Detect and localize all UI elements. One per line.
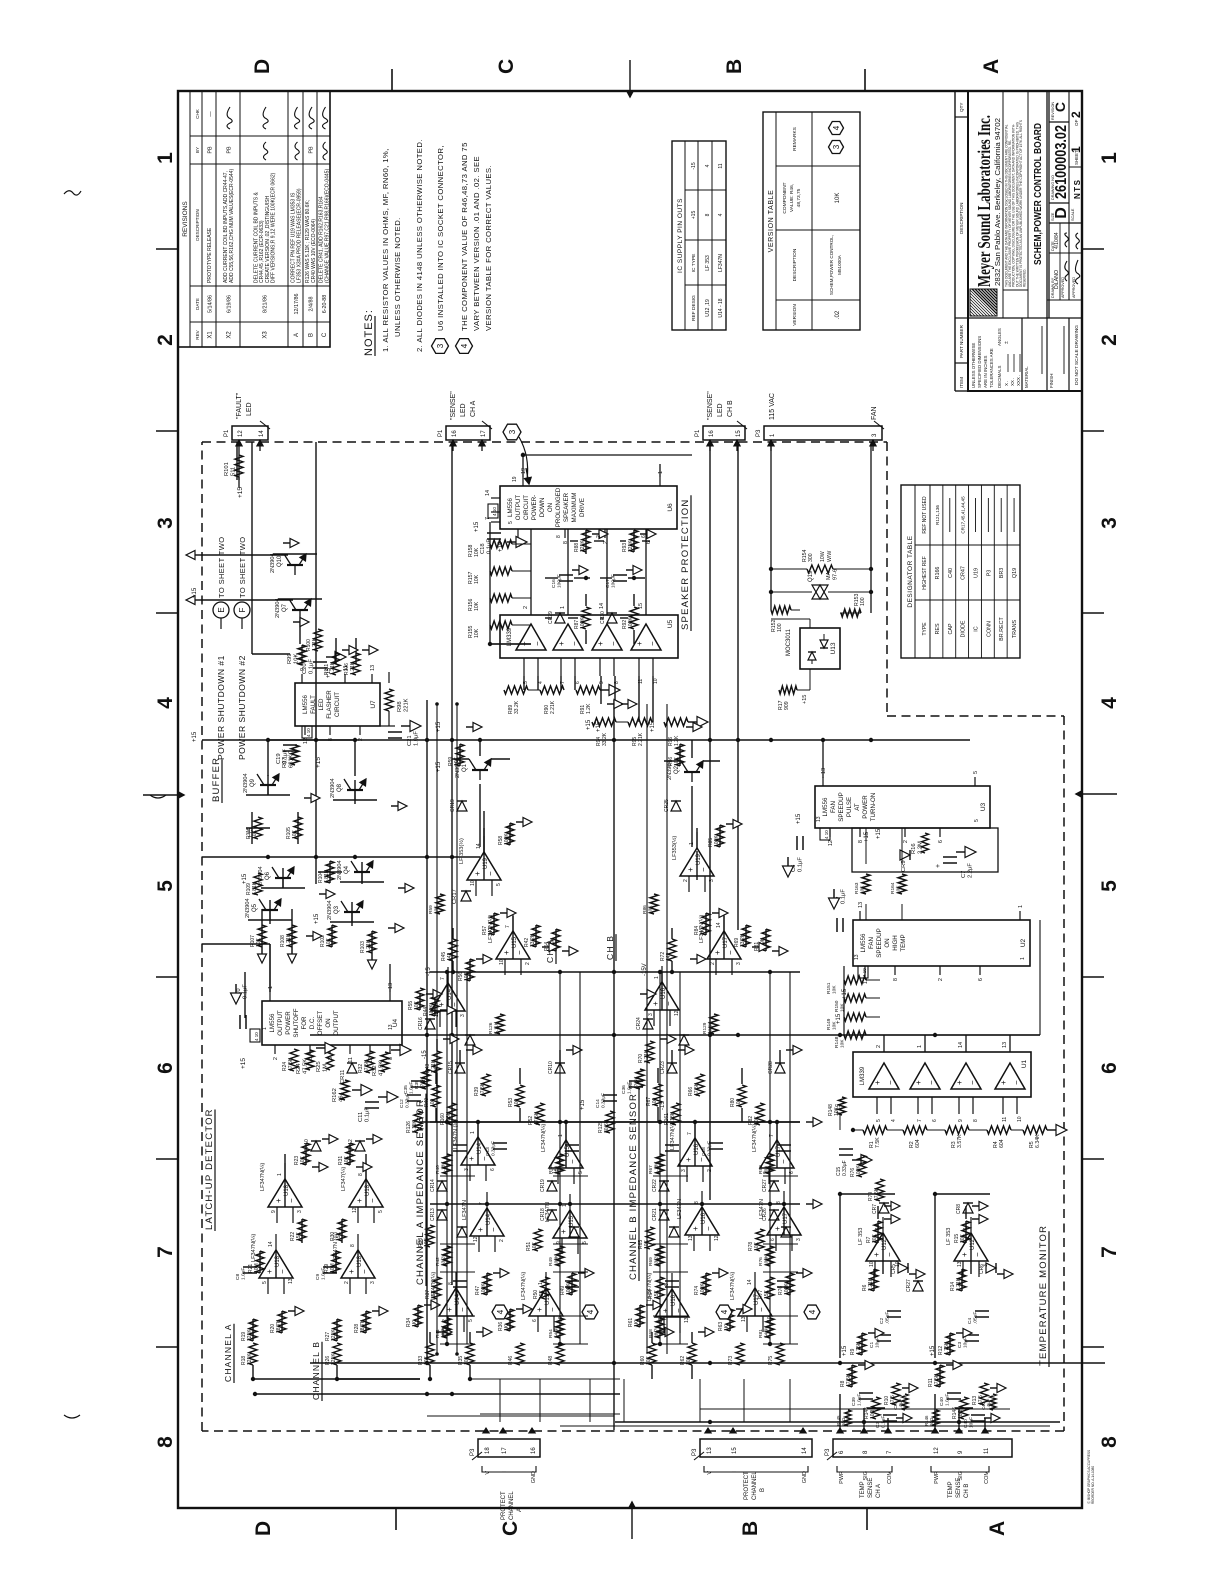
svg-text:CHANNEL B: CHANNEL B — [311, 1341, 321, 1400]
svg-text:2.2M: 2.2M — [918, 841, 924, 854]
svg-text:12: 12 — [934, 1447, 940, 1454]
svg-text:C17: C17 — [605, 579, 611, 588]
svg-text:2: 2 — [154, 334, 177, 346]
svg-text:OUTPUT: OUTPUT — [515, 495, 522, 521]
svg-text:U6: U6 — [667, 503, 674, 512]
svg-text:UNLESS OTHERWISE NOTED.: UNLESS OTHERWISE NOTED. — [393, 217, 402, 337]
svg-text:CR27: CR27 — [906, 1279, 912, 1292]
svg-text:R80: R80 — [758, 1165, 764, 1174]
svg-text:2/4/88: 2/4/88 — [309, 297, 315, 312]
svg-text:C12: C12 — [399, 1099, 405, 1108]
svg-text:97-6: 97-6 — [832, 569, 838, 580]
svg-text:8: 8 — [705, 213, 711, 216]
svg-text:C2: C2 — [879, 1318, 885, 1324]
svg-text:13: 13 — [388, 1024, 394, 1030]
svg-text:C: C — [499, 1521, 522, 1536]
svg-text:DOWN: DOWN — [539, 498, 546, 518]
svg-text:+: + — [914, 1080, 923, 1085]
svg-text:LM556: LM556 — [860, 933, 867, 952]
svg-text:1.21K: 1.21K — [366, 939, 372, 953]
svg-text:FINISH: FINISH — [1049, 374, 1054, 388]
svg-text:+: + — [873, 1080, 882, 1085]
svg-text:R126: R126 — [488, 1022, 494, 1034]
svg-text:+15: +15 — [842, 1345, 848, 1356]
svg-text:4.75K: 4.75K — [944, 1341, 950, 1355]
svg-text:2: 2 — [1098, 334, 1121, 346]
svg-text:VARY BETWEEN VERSION .01 AND .: VARY BETWEEN VERSION .01 AND .02. SEE — [472, 156, 481, 331]
svg-text:2N3904: 2N3904 — [327, 900, 333, 920]
svg-text:LF347N(¼): LF347N(¼) — [251, 1234, 257, 1262]
svg-text:PWR: PWR — [934, 1471, 940, 1484]
svg-text:SPECIFIED DIMENSIONS: SPECIFIED DIMENSIONS — [977, 336, 982, 388]
svg-text:12: 12 — [828, 840, 834, 846]
svg-text:1.0μF: 1.0μF — [321, 1268, 327, 1280]
svg-text:CHANNEL: CHANNEL — [509, 1491, 515, 1520]
svg-text:D: D — [1053, 207, 1070, 219]
svg-text:CH B: CH B — [727, 400, 734, 417]
svg-text:13: 13 — [1002, 1042, 1008, 1048]
svg-text:3: 3 — [736, 962, 742, 965]
svg-text:±: ± — [1004, 341, 1010, 344]
svg-text:+: + — [872, 1252, 881, 1257]
svg-text:PROTECT: PROTECT — [744, 1471, 750, 1500]
svg-text:-15: -15 — [422, 1050, 428, 1059]
svg-text:13: 13 — [370, 665, 376, 671]
svg-text:7: 7 — [440, 977, 446, 980]
svg-text:15K: 15K — [539, 1289, 545, 1299]
svg-text:LF 353: LF 353 — [946, 1228, 952, 1245]
svg-text:2N3904: 2N3904 — [243, 773, 249, 793]
svg-text:15: 15 — [736, 430, 742, 437]
svg-text:+15: +15 — [876, 828, 882, 839]
svg-text:LM556: LM556 — [507, 497, 514, 516]
svg-text:4: 4 — [718, 213, 724, 216]
svg-text:−: − — [486, 871, 495, 876]
svg-text:5: 5 — [468, 1319, 474, 1322]
svg-text:CH B: CH B — [964, 1484, 970, 1498]
svg-text:33.2K: 33.2K — [654, 1253, 660, 1266]
svg-text:0.33μF: 0.33μF — [491, 1141, 497, 1156]
svg-text:+15: +15 — [314, 913, 320, 924]
svg-text:CR7: CR7 — [872, 1204, 878, 1214]
svg-text:47.5K: 47.5K — [420, 1076, 426, 1089]
svg-text:4: 4 — [538, 681, 544, 684]
svg-text:4: 4 — [720, 1309, 729, 1314]
svg-text:15K: 15K — [764, 1289, 770, 1299]
svg-text:Q7: Q7 — [282, 603, 288, 612]
svg-text:B: B — [723, 59, 746, 74]
svg-text:13: 13 — [816, 816, 822, 822]
svg-text:4 10: 4 10 — [306, 728, 311, 737]
svg-text:+: + — [691, 1226, 700, 1231]
svg-text:X2: X2 — [227, 331, 233, 339]
svg-text:LF347N(¼): LF347N(¼) — [521, 1272, 527, 1300]
svg-text:0.33μF: 0.33μF — [601, 1093, 607, 1108]
svg-text:P3: P3 — [692, 1448, 698, 1456]
svg-text:−: − — [968, 1080, 977, 1085]
svg-text:6: 6 — [1098, 1062, 1121, 1074]
svg-text:3: 3 — [370, 1281, 376, 1284]
svg-text:+15: +15 — [580, 1099, 586, 1110]
svg-text:10: 10 — [1017, 1116, 1023, 1122]
svg-text:MATERIAL: MATERIAL — [1024, 366, 1029, 388]
svg-text:DESCRIPTION: DESCRIPTION — [195, 209, 200, 240]
svg-text:100: 100 — [764, 1166, 770, 1174]
svg-text:13: 13 — [957, 1261, 963, 1267]
svg-text:13: 13 — [388, 983, 394, 989]
svg-text:R97: R97 — [282, 757, 288, 768]
svg-text:1.18K: 1.18K — [654, 1161, 660, 1174]
svg-text:5: 5 — [378, 1210, 384, 1213]
svg-text:4: 4 — [586, 1309, 595, 1314]
svg-text:R121,136: R121,136 — [935, 505, 940, 525]
svg-text:1: 1 — [917, 1045, 923, 1048]
svg-text:X .: X . — [1004, 381, 1009, 386]
svg-text:100K: 100K — [504, 833, 510, 845]
svg-text:1.21K: 1.21K — [286, 933, 292, 947]
svg-text:-15: -15 — [426, 967, 432, 976]
svg-text:5: 5 — [973, 771, 979, 774]
svg-text:POWER SHUTDOWN #1: POWER SHUTDOWN #1 — [216, 655, 226, 760]
svg-text:R164: R164 — [890, 882, 896, 894]
svg-text:1K: 1K — [412, 1320, 418, 1327]
svg-text:5.11K: 5.11K — [494, 1021, 500, 1034]
svg-text:+: + — [651, 1001, 660, 1006]
svg-text:POWER SHUTDOWN #2: POWER SHUTDOWN #2 — [237, 655, 247, 760]
svg-text:RES: RES — [935, 623, 941, 634]
svg-text:12: 12 — [714, 1235, 720, 1241]
svg-text:2: 2 — [523, 606, 529, 609]
svg-text:THE COMPONENT VALUE OF R46,48,: THE COMPONENT VALUE OF R46,48,73 AND 75 — [460, 142, 469, 331]
svg-text:R162: R162 — [332, 1088, 338, 1102]
svg-text:47.5K: 47.5K — [846, 1373, 852, 1387]
svg-text:POWER: POWER — [285, 1011, 292, 1035]
svg-text:CR15: CR15 — [448, 1061, 454, 1074]
svg-text:5: 5 — [578, 1171, 584, 1174]
svg-text:−: − — [704, 1226, 713, 1231]
svg-text:P3: P3 — [470, 1448, 476, 1456]
svg-text:REMARKS: REMARKS — [792, 127, 798, 151]
svg-text:1K: 1K — [504, 1324, 510, 1331]
svg-text:TO SHEET TWO: TO SHEET TWO — [217, 537, 226, 598]
svg-text:3: 3 — [297, 1210, 303, 1213]
svg-text:P1: P1 — [224, 429, 230, 437]
svg-text:C20: C20 — [302, 663, 308, 674]
svg-text:CR13: CR13 — [430, 1208, 436, 1221]
svg-text:221K: 221K — [247, 1329, 253, 1341]
svg-text:P3: P3 — [756, 429, 762, 437]
svg-text:TRANS: TRANS — [1012, 619, 1018, 638]
svg-text:CAP: CAP — [948, 623, 954, 634]
svg-text:18: 18 — [485, 1447, 491, 1454]
svg-text:SCALE: SCALE — [1071, 208, 1075, 221]
svg-text:U14 - 18: U14 - 18 — [718, 298, 724, 317]
svg-text:2: 2 — [1069, 111, 1083, 118]
svg-text:DiLANO: DiLANO — [1054, 270, 1060, 289]
svg-text:CR19: CR19 — [540, 1179, 546, 1192]
svg-text:1: 1 — [1020, 957, 1026, 960]
svg-text:1: 1 — [538, 1282, 544, 1285]
svg-text:+15: +15 — [192, 731, 198, 742]
svg-text:+: + — [467, 1156, 476, 1161]
svg-text:2832 San Pablo Ave. Berkeley,: 2832 San Pablo Ave. Berkeley, California… — [993, 118, 1002, 286]
svg-text:3: 3 — [709, 879, 715, 882]
svg-text:16: 16 — [531, 1447, 537, 1454]
svg-text:100: 100 — [860, 597, 866, 606]
svg-text:+15: +15 — [650, 721, 656, 732]
svg-text:−: − — [779, 1159, 788, 1164]
svg-text:2.21K: 2.21K — [550, 700, 556, 714]
svg-text:48,73,75: 48,73,75 — [796, 188, 802, 207]
svg-text:2. ALL DIODES IN 4148 UNLESS: 2. ALL DIODES IN 4148 UNLESS OTHERWISE N… — [415, 139, 424, 352]
svg-text:+: + — [502, 950, 511, 955]
svg-text:10K: 10K — [896, 885, 902, 894]
svg-text:LF347(¼): LF347(¼) — [341, 1167, 347, 1191]
svg-text:100: 100 — [652, 1097, 658, 1106]
svg-text:16: 16 — [709, 430, 715, 437]
svg-text:C: C — [1052, 102, 1068, 112]
svg-text:3: 3 — [436, 343, 445, 348]
svg-text:4: 4 — [460, 343, 469, 348]
svg-text:33.2K: 33.2K — [740, 933, 746, 947]
svg-text:U7: U7 — [370, 700, 377, 709]
svg-text:1: 1 — [262, 1027, 268, 1030]
svg-text:0.1μF: 0.1μF — [841, 889, 847, 904]
svg-text:−: − — [697, 1157, 706, 1162]
svg-text:14: 14 — [268, 1241, 274, 1247]
svg-text:IC: IC — [974, 626, 980, 631]
svg-text:CR22: CR22 — [652, 1179, 658, 1192]
svg-text:LM556: LM556 — [822, 797, 829, 816]
svg-text:11: 11 — [1002, 1117, 1008, 1122]
svg-text:100: 100 — [554, 1166, 560, 1174]
svg-text:REF DESIG: REF DESIG — [691, 295, 697, 321]
svg-text:GND: GND — [531, 1471, 537, 1483]
svg-text:17: 17 — [481, 430, 487, 437]
svg-text:8: 8 — [556, 535, 562, 538]
svg-text:+: + — [473, 871, 482, 876]
svg-text:8: 8 — [973, 1119, 979, 1122]
svg-text:SCHEM,POWER CONTROL,: SCHEM,POWER CONTROL, — [829, 235, 834, 295]
svg-text:A: A — [294, 333, 300, 337]
svg-text:Q6: Q6 — [265, 871, 271, 880]
svg-text:ON: ON — [547, 503, 554, 512]
svg-text:10K: 10K — [474, 628, 480, 638]
svg-text:464: 464 — [339, 1092, 345, 1102]
svg-text:4: 4 — [154, 697, 177, 709]
svg-text:221K: 221K — [247, 1353, 253, 1365]
svg-text:2N3904: 2N3904 — [275, 598, 281, 618]
svg-text:+15: +15 — [836, 1103, 842, 1114]
svg-text:D: D — [252, 1521, 275, 1536]
svg-text:BR3: BR3 — [999, 568, 1005, 579]
svg-text:C13: C13 — [485, 1147, 491, 1156]
svg-text:6: 6 — [839, 1450, 845, 1454]
svg-text:−: − — [548, 1307, 557, 1312]
svg-text:+: + — [274, 1198, 283, 1203]
svg-text:6: 6 — [490, 1168, 496, 1171]
svg-text:1K: 1K — [634, 1320, 640, 1327]
svg-text:8: 8 — [358, 1173, 364, 1176]
svg-text:1: 1 — [689, 842, 695, 845]
svg-text:.05μF: .05μF — [885, 1312, 891, 1324]
svg-text:DATE: DATE — [195, 298, 200, 310]
svg-text:ADD C55,56,R162,CHG NUM VALUES: ADD C55,56,R162,CHG NUM VALUES(ECR-0544) — [229, 169, 235, 283]
svg-text:MOC3011: MOC3011 — [786, 628, 792, 656]
svg-text:IC TYPE: IC TYPE — [691, 254, 697, 273]
svg-text:−: − — [570, 641, 579, 646]
svg-text:1K: 1K — [700, 928, 706, 935]
svg-text:1.0μF: 1.0μF — [857, 1394, 863, 1406]
svg-text:C4: C4 — [967, 1318, 973, 1324]
svg-text:D.C.: D.C. — [309, 1017, 316, 1030]
svg-text:Q5: Q5 — [252, 903, 258, 912]
svg-text:B: B — [739, 1521, 762, 1536]
svg-text:CR10: CR10 — [548, 1061, 554, 1074]
svg-text:+: + — [535, 1307, 544, 1312]
svg-text:R166: R166 — [935, 567, 941, 580]
svg-text:R149: R149 — [826, 1018, 832, 1030]
svg-text:P3: P3 — [986, 570, 992, 577]
svg-text:VERSION TABLE FOR CORRECT VALU: VERSION TABLE FOR CORRECT VALUES. — [484, 165, 493, 331]
svg-text:10K: 10K — [326, 937, 332, 947]
svg-text:1.0μF: 1.0μF — [986, 1398, 991, 1410]
svg-text:12: 12 — [303, 738, 309, 744]
svg-text:100K: 100K — [554, 1254, 560, 1266]
svg-text:2N3904: 2N3904 — [270, 553, 276, 573]
svg-text:−: − — [368, 1198, 377, 1203]
svg-text:−: − — [885, 1252, 894, 1257]
svg-text:R151: R151 — [826, 982, 832, 994]
svg-text:12: 12 — [473, 1236, 479, 1242]
svg-text:16: 16 — [452, 430, 458, 437]
svg-text:17: 17 — [502, 1447, 508, 1454]
svg-text:3: 3 — [648, 1013, 654, 1016]
svg-text:SPEAKER PROTECTION: SPEAKER PROTECTION — [680, 499, 691, 630]
svg-text:10K: 10K — [474, 601, 480, 611]
svg-text:LF347N(¼): LF347N(¼) — [541, 1124, 547, 1152]
svg-text:100K: 100K — [714, 835, 720, 847]
svg-text:2N3904: 2N3904 — [245, 898, 251, 918]
svg-text:CR47: CR47 — [961, 566, 967, 580]
svg-text:6.81K: 6.81K — [252, 881, 258, 895]
svg-text:47.5K: 47.5K — [288, 1057, 294, 1071]
svg-text:IC SUPPLY PIN OUTS: IC SUPPLY PIN OUTS — [677, 198, 684, 273]
svg-text:R129: R129 — [702, 1022, 708, 1034]
svg-text:+15: +15 — [248, 827, 254, 838]
svg-text:2.21K: 2.21K — [868, 1277, 874, 1291]
svg-text:100μF: 100μF — [611, 574, 617, 588]
svg-text:13: 13 — [707, 1447, 713, 1454]
svg-text:CR16: CR16 — [418, 1017, 424, 1030]
svg-text:+: + — [355, 1198, 364, 1203]
svg-text:−: − — [648, 641, 657, 646]
svg-text:10K: 10K — [414, 1000, 420, 1010]
svg-text:7: 7 — [687, 1132, 693, 1135]
svg-text:1.0μF: 1.0μF — [898, 1398, 903, 1410]
svg-text:33.2K: 33.2K — [530, 933, 536, 947]
svg-text:−: − — [973, 1252, 982, 1257]
svg-text:A: A — [980, 59, 1003, 74]
svg-text:3: 3 — [796, 1238, 802, 1241]
svg-text:CONN: CONN — [986, 621, 992, 637]
svg-text:LF 353: LF 353 — [705, 255, 711, 271]
svg-text:6: 6 — [978, 978, 984, 981]
svg-text:TEMP: TEMP — [860, 1481, 866, 1498]
svg-text:6: 6 — [532, 1319, 538, 1322]
svg-text:Q9: Q9 — [250, 778, 256, 787]
svg-text:+15: +15 — [242, 873, 248, 884]
svg-text:10K: 10K — [840, 1039, 846, 1048]
svg-text:100K: 100K — [764, 1254, 770, 1266]
svg-text:14: 14 — [875, 1224, 881, 1230]
svg-text:3.57K: 3.57K — [957, 1134, 963, 1148]
svg-text:9: 9 — [958, 1450, 964, 1454]
svg-text:−: − — [287, 1198, 296, 1203]
svg-text:100: 100 — [430, 1098, 436, 1107]
svg-text:TOLERANCES ARE: TOLERANCES ARE — [989, 348, 994, 388]
svg-text:+: + — [635, 641, 644, 646]
svg-text:C39: C39 — [851, 1397, 857, 1406]
svg-text:9: 9 — [271, 1210, 277, 1213]
svg-text:100μF: 100μF — [557, 574, 563, 588]
svg-text:1: 1 — [268, 986, 274, 989]
svg-text:6: 6 — [932, 1119, 938, 1122]
svg-text:33.2K: 33.2K — [441, 1253, 447, 1266]
svg-text:0.33μF: 0.33μF — [842, 1160, 848, 1176]
svg-text:CIRCUIT: CIRCUIT — [523, 495, 530, 520]
svg-text:221K: 221K — [628, 540, 634, 552]
svg-text:8: 8 — [448, 1282, 454, 1285]
svg-text:1.18K: 1.18K — [441, 1161, 447, 1174]
svg-text:9: 9 — [599, 681, 605, 684]
svg-text:0.1μF: 0.1μF — [309, 659, 315, 674]
svg-text:8: 8 — [863, 1450, 869, 1454]
svg-text:APPROVED: APPROVED — [1061, 277, 1065, 298]
svg-text:1K: 1K — [488, 928, 494, 935]
svg-text:R24: R24 — [296, 1063, 302, 1074]
svg-text:R39: R39 — [414, 1080, 420, 1089]
svg-text:5: 5 — [496, 883, 502, 886]
svg-text:2: 2 — [525, 962, 531, 965]
svg-text:CR19: CR19 — [450, 799, 456, 812]
svg-text:Q19: Q19 — [1012, 568, 1018, 578]
svg-text:SENSE: SENSE — [868, 1478, 874, 1498]
svg-text:CH A: CH A — [876, 1484, 882, 1498]
svg-text:−: − — [360, 1269, 369, 1274]
svg-text:2.21K: 2.21K — [956, 1277, 962, 1291]
svg-text:Q1: Q1 — [462, 763, 468, 772]
svg-text:10: 10 — [895, 1261, 901, 1267]
svg-text:CIRCUIT: CIRCUIT — [334, 692, 341, 717]
svg-text:26100003.02: 26100003.02 — [1053, 125, 1070, 199]
svg-text:1. ALL RESISTOR VALUES IN OHM: 1. ALL RESISTOR VALUES IN OHMS, MF, RN60… — [381, 148, 390, 352]
svg-text:B: B — [760, 1488, 766, 1492]
svg-text:C36: C36 — [621, 1085, 627, 1094]
svg-text:+15: +15 — [691, 211, 697, 220]
svg-text:E: E — [217, 607, 226, 612]
svg-text:11: 11 — [718, 163, 724, 168]
svg-text:C7: C7 — [961, 871, 967, 878]
svg-text:−: − — [674, 1308, 683, 1313]
svg-text:C: C — [322, 332, 328, 337]
svg-text:TYPE: TYPE — [922, 622, 928, 636]
svg-text:−: − — [458, 1307, 467, 1312]
svg-text:9: 9 — [958, 1119, 964, 1122]
svg-text:R163: R163 — [854, 882, 860, 894]
svg-text:HIGH: HIGH — [892, 935, 899, 950]
svg-text:CR8: CR8 — [956, 1204, 962, 1214]
